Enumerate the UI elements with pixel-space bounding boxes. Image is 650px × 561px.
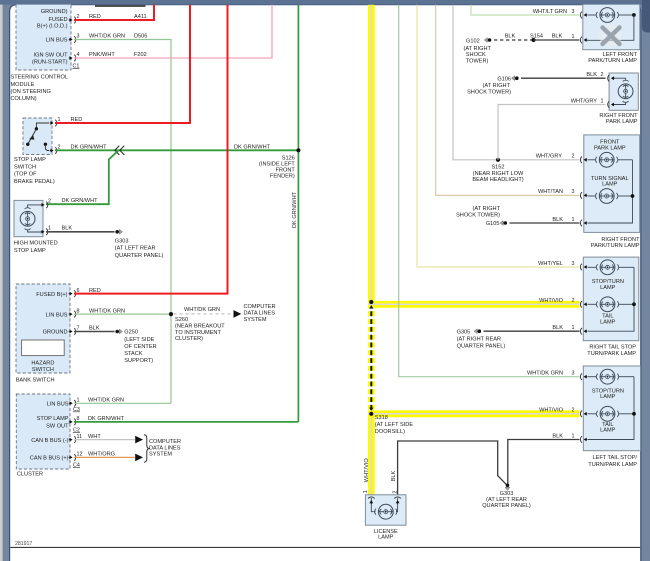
svg-text:TURN/PARK LAMP: TURN/PARK LAMP [588, 462, 637, 468]
svg-text:(LEFT SIDE: (LEFT SIDE [124, 337, 154, 343]
svg-text:HIGH MOUNTED: HIGH MOUNTED [14, 241, 58, 247]
arrow to computer data lines (hazard) [234, 310, 242, 318]
svg-text:12: 12 [77, 452, 83, 458]
wire WHT/GRY (S152 up to right front park lamp pin 1) [498, 98, 606, 160]
wire RED (stop lamp switch pin 1) [55, 5, 190, 123]
hazard switch button [22, 340, 65, 356]
svg-text:8: 8 [77, 308, 80, 314]
svg-text:BLK: BLK [62, 226, 73, 232]
cluster pin 1 connector [47, 398, 80, 413]
wire WHT/ORG (cluster pin 12) [74, 452, 135, 458]
left tail pin 3 connector [572, 371, 588, 381]
right front park/turn pin 2 connector [572, 154, 588, 164]
svg-text:STACK: STACK [124, 351, 143, 357]
svg-text:LIN BUS: LIN BUS [47, 402, 69, 408]
svg-text:PARK LAMP: PARK LAMP [606, 119, 638, 125]
front park lamp title [594, 140, 626, 152]
wire ground BLK stub (steering module pin 1, cut by band) [95, 5, 146, 7]
svg-text:DK GRN/WHT: DK GRN/WHT [71, 145, 108, 151]
svg-text:RED: RED [89, 288, 101, 294]
switch pin 2 connector [50, 145, 61, 154]
svg-text:2: 2 [572, 154, 575, 160]
svg-text:2: 2 [572, 298, 575, 304]
right front park lamp box [609, 73, 638, 110]
svg-text:SW OUT: SW OUT [46, 423, 69, 429]
cluster pin 8 connector [37, 416, 80, 433]
wire WHT/GRY column (to S152) [453, 5, 580, 160]
wire BLK (S154 to left front park/turn pin 1) [534, 33, 580, 40]
svg-text:FUSED: FUSED [49, 17, 68, 23]
right tail pin 3 connector [572, 261, 588, 271]
svg-text:G102: G102 [466, 39, 480, 45]
wire BLK (high mounted stop lamp pin 1 to G303) [46, 226, 115, 232]
svg-text:281917: 281917 [15, 541, 32, 547]
svg-text:3: 3 [77, 34, 80, 40]
svg-text:PARK/TURN LAMP: PARK/TURN LAMP [591, 243, 640, 249]
svg-text:(ON STEERING: (ON STEERING [11, 89, 51, 95]
svg-text:MODULE: MODULE [11, 82, 35, 88]
license lamp box [365, 495, 406, 525]
svg-text:S154: S154 [530, 33, 543, 39]
svg-text:(TOP OF: (TOP OF [14, 172, 37, 178]
svg-text:BLK: BLK [89, 326, 100, 332]
svg-text:QUARTER PANEL): QUARTER PANEL) [457, 344, 506, 350]
svg-text:1: 1 [572, 34, 575, 40]
svg-text:OF CENTER: OF CENTER [124, 344, 156, 350]
svg-text:4: 4 [77, 52, 80, 58]
svg-text:(NEAR BREAKOUT: (NEAR BREAKOUT [175, 324, 225, 330]
svg-text:2: 2 [48, 199, 51, 205]
svg-text:RIGHT FRONT: RIGHT FRONT [601, 237, 640, 243]
hazard switch labels [16, 360, 55, 383]
svg-text:LAMP: LAMP [600, 285, 616, 291]
wire PNK/WHT F202 (module pin 4) [74, 5, 272, 58]
svg-text:D506: D506 [134, 34, 147, 40]
wire WHT/VIO horizontal to left tail lamp [368, 408, 580, 414]
stop/turn lamp title (right tail) [592, 279, 624, 291]
svg-text:FRONT: FRONT [276, 168, 296, 174]
svg-text:DOORSILL): DOORSILL) [375, 429, 405, 435]
svg-text:11: 11 [77, 434, 83, 440]
svg-text:LIN BUS: LIN BUS [46, 38, 68, 44]
left tail inner wiring [588, 377, 636, 440]
wire WHT/TAN column (to right front park/turn pin 3) [436, 5, 580, 196]
svg-text:LAMP: LAMP [600, 428, 616, 434]
window left gray edge [0, 0, 3, 561]
svg-text:DK GRN/WHT: DK GRN/WHT [88, 416, 125, 422]
right tail pin 2 connector [572, 298, 588, 308]
svg-text:DK GRN/WHT: DK GRN/WHT [292, 191, 298, 228]
node S260 [169, 312, 225, 342]
svg-text:(AT LEFT SIDE: (AT LEFT SIDE [375, 422, 414, 428]
svg-text:2: 2 [572, 408, 575, 414]
svg-text:1: 1 [572, 217, 575, 223]
switch pin 1 connector [50, 117, 61, 126]
svg-text:BRAKE PEDAL): BRAKE PEDAL) [14, 179, 55, 185]
wire RED (hazard pin 6) [74, 5, 228, 294]
wire BLK dashed (G102 to S154) [494, 33, 534, 40]
front park lamp bulb (right front park/turn) [588, 152, 633, 167]
svg-text:S260: S260 [175, 317, 188, 323]
svg-text:WHT/DK GRN: WHT/DK GRN [527, 371, 563, 377]
stop/turn lamp bulb (right tail) [588, 260, 634, 275]
svg-text:SYSTEM: SYSTEM [149, 452, 172, 458]
module pin 3 connector [69, 34, 80, 43]
page frame bottom line [10, 546, 640, 548]
arrow to computer data lines (pin 12) [135, 454, 143, 462]
license lamp pin 2 connector [392, 491, 401, 504]
module pin 4 connector [69, 52, 80, 61]
svg-text:BLK: BLK [391, 470, 397, 481]
high mounted stop lamp box [14, 200, 43, 236]
hazard pin 6 connector [36, 288, 79, 298]
left front park/turn pin 3 connector [572, 9, 588, 18]
left front park/turn lamp label [588, 52, 637, 64]
svg-text:RIGHT TAIL STOP: RIGHT TAIL STOP [589, 344, 636, 350]
svg-text:WHT/DK GRN: WHT/DK GRN [184, 307, 220, 313]
wire WHT/YEL column (to right tail pin 3) [417, 5, 580, 267]
left tail pin 2 connector [572, 408, 588, 418]
right tail stop turn/park lamp box [583, 257, 639, 341]
svg-text:WHT/DK GRN: WHT/DK GRN [89, 308, 125, 314]
wire WHT/VIO horizontal to right tail lamp [368, 298, 580, 304]
svg-text:BANK SWITCH: BANK SWITCH [16, 377, 55, 383]
brace for computer data lines (cluster) [144, 435, 149, 462]
svg-text:CAN B BUS (+): CAN B BUS (+) [30, 456, 69, 462]
stop/turn lamp title (left tail) [592, 388, 624, 400]
right front park pin 1 connector [601, 98, 615, 107]
right front park/turn pin 1 connector [572, 217, 588, 227]
svg-text:WHT: WHT [88, 434, 101, 440]
wire WHT (cluster pin 11) [74, 434, 135, 440]
tail lamp bulb (left tail) [588, 406, 634, 421]
stop/turn lamp bulb (left tail) [588, 369, 634, 384]
svg-text:COMPUTER: COMPUTER [244, 304, 276, 310]
svg-text:STOP LAMP: STOP LAMP [14, 157, 46, 163]
high mounted stop lamp pin 1 connector [41, 226, 51, 236]
svg-text:TO INSTRUMENT: TO INSTRUMENT [175, 330, 221, 336]
steering module label [11, 75, 69, 103]
svg-text:TOWER): TOWER) [466, 59, 489, 65]
svg-text:WHT/DK GRN: WHT/DK GRN [88, 398, 124, 404]
hazard switch box [16, 284, 70, 373]
svg-text:DATA LINES: DATA LINES [149, 445, 181, 451]
node S152 [472, 158, 524, 184]
license lamp bulb [371, 498, 397, 519]
wire BLK (hazard pin 7 to G250) [74, 326, 115, 332]
svg-text:BLK: BLK [552, 433, 563, 439]
right front park/turn inner wiring [588, 160, 634, 223]
svg-text:DK GRN/WHT: DK GRN/WHT [234, 145, 271, 151]
wire DK GRN/WHT branch to high mounted stop lamp [46, 150, 119, 204]
svg-text:SUPPORT): SUPPORT) [124, 358, 153, 364]
svg-text:(RUN-START): (RUN-START) [32, 59, 68, 65]
svg-text:(AT RIGHT: (AT RIGHT [464, 46, 492, 52]
right tail pin 1 connector [572, 325, 588, 335]
left front park/turn pin 1 connector [572, 34, 588, 44]
svg-text:WHT/GRY: WHT/GRY [571, 98, 598, 104]
steering module pin labels [32, 9, 80, 70]
stop lamp switch label [14, 157, 55, 185]
svg-text:1: 1 [48, 226, 51, 232]
svg-text:WHT/DK GRN: WHT/DK GRN [89, 34, 125, 40]
stop lamp switch box [23, 118, 52, 155]
svg-text:G105: G105 [486, 221, 500, 227]
svg-text:DATA LINES: DATA LINES [244, 311, 276, 317]
left tail pin 1 connector [572, 433, 588, 443]
cluster box [16, 394, 70, 469]
left tail lamp label [588, 455, 637, 468]
svg-text:BLK: BLK [586, 72, 597, 78]
svg-text:WHT/ORG: WHT/ORG [88, 452, 115, 458]
node S126 [259, 5, 300, 422]
svg-text:CLUSTER: CLUSTER [17, 471, 43, 477]
svg-text:QUARTER PANEL): QUARTER PANEL) [482, 503, 531, 509]
wire BLK (license lamp pin 2 to G303) [398, 441, 506, 495]
svg-text:STEERING CONTROL: STEERING CONTROL [11, 75, 69, 81]
turn signal lamp title [591, 176, 629, 188]
window right dark top block [642, 0, 650, 33]
computer data lines system text (cluster) [149, 439, 181, 458]
svg-text:LAMP: LAMP [600, 319, 616, 325]
right front park lamp bulb [612, 78, 633, 104]
license lamp label [374, 529, 398, 541]
svg-text:G106: G106 [497, 76, 511, 82]
svg-text:(AT LEFT REAR: (AT LEFT REAR [486, 497, 527, 503]
svg-text:GROUND): GROUND) [41, 9, 68, 15]
wire WHT/DK GRN column (to left tail pin 3) [399, 5, 580, 377]
svg-text:WHT/YEL: WHT/YEL [538, 261, 563, 267]
svg-text:FUSED B(+): FUSED B(+) [36, 292, 67, 298]
svg-text:SWITCH: SWITCH [32, 367, 54, 373]
left tail stop/turn/park lamp box [583, 366, 640, 451]
ground G250 [115, 329, 156, 364]
svg-text:G250: G250 [124, 330, 138, 336]
svg-text:WHT/VIO: WHT/VIO [539, 298, 564, 304]
svg-text:QUARTER PANEL): QUARTER PANEL) [115, 253, 164, 259]
hazard pin 7 connector [43, 326, 80, 336]
turn signal lamp bulb (right front park/turn) [588, 189, 633, 204]
svg-text:LEFT TAIL STOP/: LEFT TAIL STOP/ [593, 455, 638, 461]
svg-text:CLUSTER): CLUSTER) [175, 336, 203, 342]
svg-text:3: 3 [572, 9, 575, 15]
wire RED A411 (module pin 2) [74, 5, 154, 20]
node S154 [530, 33, 543, 42]
svg-text:BEAM HEADLIGHT): BEAM HEADLIGHT) [472, 177, 523, 183]
svg-text:WHT/GRY: WHT/GRY [536, 154, 563, 160]
node at top of dashed section [369, 300, 373, 309]
right front park/turn lamp box [584, 135, 640, 233]
inline connector marks on DK GRN/WHT [115, 146, 125, 155]
svg-text:(NEAR RIGHT LOW: (NEAR RIGHT LOW [473, 171, 524, 177]
svg-text:LAMP: LAMP [600, 394, 616, 400]
hazard pin 8 connector [46, 308, 80, 318]
cluster pin 12 connector [30, 452, 83, 469]
arrow to computer data lines (pin 11) [135, 436, 143, 444]
ground G102 [464, 38, 492, 65]
tail lamp title (right tail) [600, 314, 616, 326]
svg-text:HAZARD: HAZARD [31, 360, 54, 366]
svg-text:LAMP: LAMP [602, 182, 618, 188]
svg-text:(AT LEFT REAR: (AT LEFT REAR [115, 246, 156, 252]
svg-text:B(+) (I.O.D.): B(+) (I.O.D.) [37, 23, 68, 29]
svg-text:BLK: BLK [552, 325, 563, 331]
ground G303 (left rear quarter panel, upper) [115, 230, 164, 259]
svg-text:GROUND: GROUND [43, 330, 68, 336]
steering control module box [16, 3, 71, 70]
svg-text:CAN B BUS (-): CAN B BUS (-) [31, 438, 68, 444]
node S318 [369, 412, 413, 435]
svg-text:(AT RIGHT: (AT RIGHT [483, 83, 511, 89]
left front park/turn lamp bulb [587, 8, 636, 41]
cluster pin 11 connector [31, 434, 82, 444]
svg-text:STOP LAMP: STOP LAMP [37, 416, 69, 422]
wire DK GRN/WHT (switch pin 2 to S126) [55, 145, 298, 151]
wire BLK (G305 to right tail pin 1) [484, 325, 580, 331]
svg-text:DK GRN/WHT: DK GRN/WHT [62, 198, 99, 204]
svg-text:1: 1 [77, 398, 80, 404]
svg-text:SYSTEM: SYSTEM [244, 317, 267, 323]
high mounted stop lamp label [14, 241, 58, 254]
svg-text:PARK/TURN LAMP: PARK/TURN LAMP [588, 58, 637, 64]
svg-text:SHOCK TOWER): SHOCK TOWER) [456, 212, 500, 218]
svg-text:G305: G305 [457, 329, 471, 335]
high mounted stop lamp bulb [20, 205, 42, 232]
svg-text:WHT/VIO: WHT/VIO [539, 408, 564, 414]
svg-text:WHT/LT GRN: WHT/LT GRN [533, 9, 567, 15]
svg-text:(AT RIGHT: (AT RIGHT [473, 206, 501, 212]
svg-text:TURN/PARK LAMP: TURN/PARK LAMP [587, 351, 636, 357]
license lamp pin 1 connector [363, 490, 375, 504]
svg-text:(AT RIGHT REAR: (AT RIGHT REAR [457, 337, 501, 343]
module pin 2 connector [69, 14, 80, 23]
svg-text:RED: RED [89, 14, 101, 20]
wire WHT/DK GRN dashed (S260 to data link arrow) [174, 307, 234, 314]
svg-text:G303: G303 [115, 238, 129, 244]
svg-text:(INSIDE LEFT: (INSIDE LEFT [259, 162, 295, 168]
svg-text:RIGHT FRONT: RIGHT FRONT [599, 113, 638, 119]
right tail lamp label [587, 344, 636, 357]
right front park/turn pin 3 connector [572, 189, 588, 199]
wire WHT/DK GRN (hazard pin 8 to S260) [74, 308, 171, 314]
ground G305 [457, 329, 506, 350]
svg-text:3: 3 [572, 189, 575, 195]
svg-text:RED: RED [71, 117, 83, 123]
svg-text:BLK: BLK [505, 33, 516, 39]
tail lamp title (left tail) [600, 422, 616, 434]
ground G303 (left rear quarter panel, lower) [482, 483, 531, 509]
wire WHT/LT GRN column (to left front park/turn pin 3) [471, 5, 580, 15]
svg-text:BLK: BLK [552, 33, 563, 39]
right tail inner wiring [588, 267, 636, 331]
wire DK GRN/WHT (cluster pin 8) [74, 416, 298, 422]
svg-text:PARK LAMP: PARK LAMP [594, 145, 626, 151]
svg-text:1: 1 [572, 325, 575, 331]
stop lamp switch internals [26, 123, 49, 151]
svg-text:STOP LAMP: STOP LAMP [14, 248, 46, 254]
tail lamp bulb (right tail) [588, 297, 634, 312]
svg-text:FENDER): FENDER) [270, 174, 295, 180]
svg-text:WHT/VIO: WHT/VIO [364, 458, 370, 483]
svg-text:S126: S126 [282, 155, 295, 161]
window top band [0, 0, 650, 5]
svg-text:G303: G303 [500, 491, 514, 497]
svg-text:S152: S152 [491, 165, 504, 171]
svg-text:2: 2 [601, 72, 604, 78]
crossed-out marker on left front park/turn lamp [599, 24, 622, 47]
svg-text:LIN BUS: LIN BUS [46, 312, 68, 318]
wire WHT/DK GRN D506 (module pin 3 to S260/cluster) [74, 34, 171, 404]
svg-text:S318: S318 [375, 415, 388, 421]
svg-text:SWITCH: SWITCH [14, 164, 36, 170]
wire WHT/VIO highlighted vertical (yellow) [368, 5, 375, 497]
svg-text:WHT/TAN: WHT/TAN [538, 189, 563, 195]
high mounted stop lamp pin 2 connector [41, 199, 51, 209]
wire BLK (left tail pin 1 down to G303) [508, 433, 580, 483]
svg-text:BLK: BLK [552, 217, 563, 223]
svg-text:2: 2 [392, 491, 398, 494]
svg-text:PNK/WHT: PNK/WHT [89, 52, 115, 58]
wire WHT/VIO dashed section (S-junction to S318) [369, 304, 373, 414]
left front park/turn lamp box [583, 3, 640, 50]
right front park lamp label [599, 113, 638, 125]
svg-text:3: 3 [572, 261, 575, 267]
svg-text:A411: A411 [134, 14, 147, 20]
svg-text:COLUMN): COLUMN) [11, 96, 37, 102]
svg-text:1: 1 [601, 98, 604, 104]
computer data lines system text (hazard) [244, 304, 276, 323]
svg-text:3: 3 [572, 371, 575, 377]
svg-text:LAMP: LAMP [378, 535, 394, 541]
right front park/turn lamp label [591, 237, 640, 249]
svg-text:SHOCK: SHOCK [466, 52, 486, 58]
svg-text:SHOCK TOWER): SHOCK TOWER) [467, 90, 511, 96]
svg-text:COMPUTER: COMPUTER [149, 439, 181, 445]
wire BLK (G105 to right front park/turn pin 1) [510, 217, 580, 223]
svg-text:1: 1 [572, 433, 575, 439]
wire BLK (G106 to right front park lamp pin 2) [521, 72, 606, 78]
svg-text:F202: F202 [134, 52, 147, 58]
svg-text:1: 1 [363, 490, 369, 493]
wire WHT/DK GRN (cluster pin 1) [74, 398, 171, 404]
svg-text:IGN SW OUT: IGN SW OUT [34, 53, 68, 59]
ground G106 [467, 76, 519, 96]
ground G105 [456, 206, 507, 227]
right front park pin 2 connector [601, 72, 615, 81]
